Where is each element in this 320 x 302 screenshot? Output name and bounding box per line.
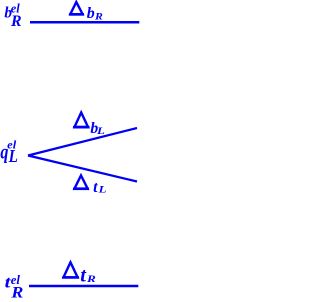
node t_R^el level label <box>5 272 24 301</box>
svg-text:R: R <box>10 13 22 30</box>
label Delta_bL <box>73 113 105 138</box>
svg-text:L: L <box>96 126 105 137</box>
svg-text:t: t <box>93 179 98 196</box>
node b_R^el level label <box>4 2 21 30</box>
wire: t_R level line <box>29 285 138 288</box>
svg-text:R: R <box>94 13 103 23</box>
label Delta_tR <box>62 262 96 286</box>
svg-text:b: b <box>87 5 95 22</box>
label Delta_bR <box>69 2 103 23</box>
svg-text:R: R <box>10 284 23 301</box>
svg-text:R: R <box>86 274 97 285</box>
wire: q_L to b_L upper fan line <box>28 128 137 156</box>
node q_L^el level label <box>0 138 18 166</box>
svg-text:L: L <box>97 185 106 196</box>
svg-text:L: L <box>8 146 18 166</box>
label Delta_tL <box>73 175 106 196</box>
wire: q_L to t_L lower fan line <box>28 156 137 182</box>
wire: b_R level line <box>30 21 139 24</box>
